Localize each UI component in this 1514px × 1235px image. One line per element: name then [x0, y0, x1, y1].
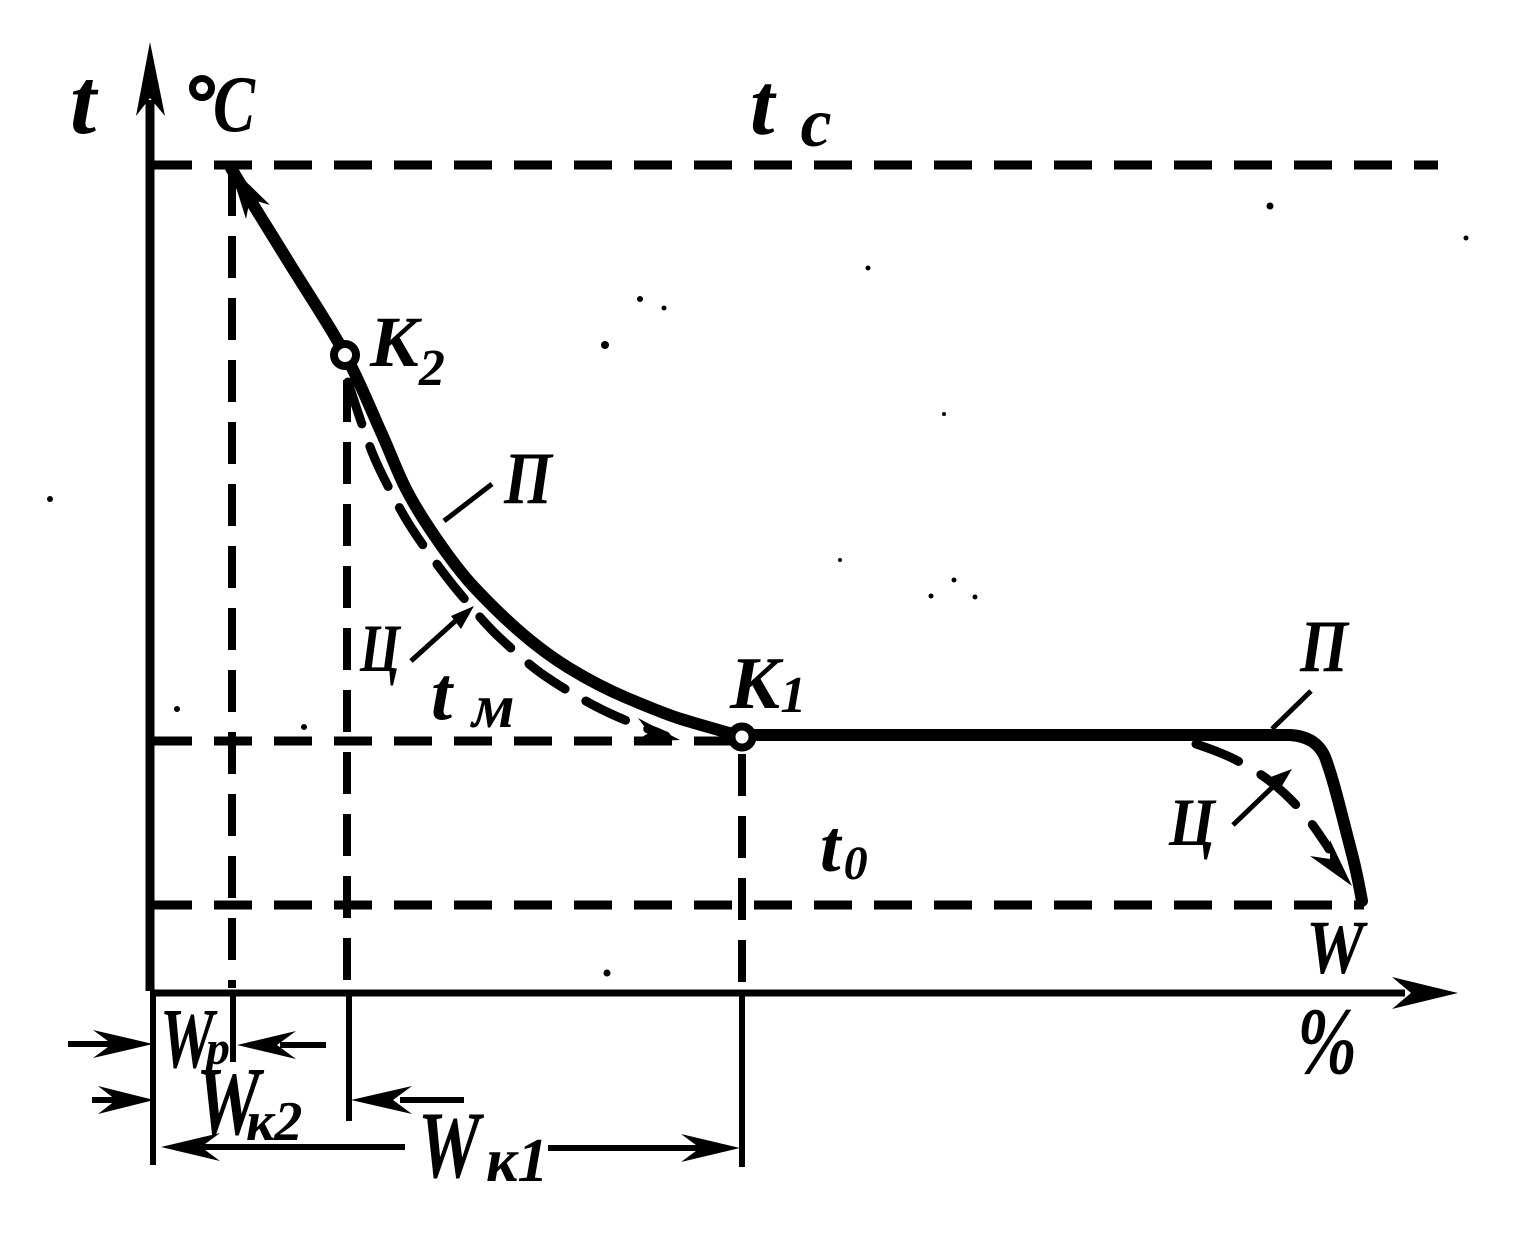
arrowhead at start of curve P [229, 165, 270, 219]
dashed vertical at Wk2 [343, 380, 351, 988]
dimension arrow Wp right [237, 1031, 326, 1059]
svg-text:C: C [213, 61, 256, 149]
leader line C left with arrow [411, 606, 474, 661]
plateau and right drop of curve P [742, 735, 1362, 901]
dashed vertical at Wk1 [738, 754, 746, 988]
arrowhead of dashed curve C right [1310, 840, 1352, 886]
svg-text:W: W [1306, 906, 1369, 990]
dimension arrow Wk2 right [351, 1086, 464, 1114]
svg-text:П: П [503, 438, 554, 520]
dashed line t_0 [154, 901, 1364, 910]
scan speck dots [47, 203, 1469, 977]
svg-text:П: П [1299, 606, 1350, 688]
svg-text:Ц: Ц [1168, 784, 1217, 860]
dimension arrow Wk1 left [161, 1133, 405, 1161]
svg-text:%: % [1297, 988, 1357, 1094]
dimension arrow Wp left [68, 1030, 153, 1058]
point K2 circle [334, 344, 356, 366]
svg-text:Ц: Ц [359, 610, 401, 686]
x-axis W [150, 977, 1458, 1009]
curve C center temperature (dashed, right) [1196, 744, 1329, 849]
svg-text:W: W [418, 1092, 485, 1198]
svg-text:к1: к1 [486, 1127, 548, 1195]
dashed line t_c [154, 161, 1438, 170]
solid extension Wp below axis [230, 993, 236, 1062]
dashed line t_m [154, 737, 730, 746]
svg-text:t: t [70, 50, 99, 154]
point K1 circle [732, 727, 753, 748]
leader line C right with arrow [1233, 769, 1292, 825]
solid extension Wk1 below axis [739, 993, 745, 1167]
curve C center temperature (dashed, left) [348, 382, 666, 736]
svg-text:к2: к2 [246, 1091, 302, 1153]
label degC [193, 79, 212, 98]
arrowhead of dashed curve C near K1 [633, 718, 680, 742]
leader line P left [444, 484, 492, 521]
y-axis extension below x-axis [150, 991, 156, 1165]
dimension arrow Wk1 right [548, 1134, 740, 1162]
dashed vertical at Wp [228, 174, 236, 988]
leader line P right [1272, 691, 1311, 729]
curve P surface temperature (solid) [231, 168, 742, 736]
solid extension Wk2 below axis [346, 993, 352, 1121]
y-axis t [136, 42, 165, 991]
dimension arrow Wk2 left [92, 1086, 154, 1114]
